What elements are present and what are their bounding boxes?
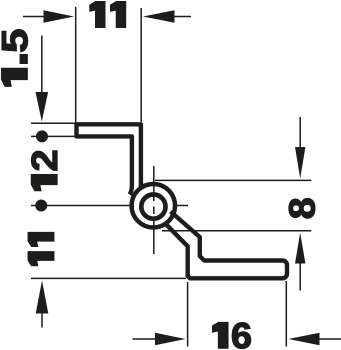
label 8 right (rotated) [289, 199, 315, 218]
arrow tail bottom for dim 8 [299, 262, 301, 291]
arrowhead right (dim 11 top left) [44, 10, 75, 23]
hinge arm and bottom flange [165, 212, 287, 279]
extension line bottom of dim 8 [162, 230, 311, 232]
extension line top of dim 1.5 [31, 122, 76, 124]
terminator dot (dim 12 bottom / dim 11) [35, 200, 47, 212]
label 11 left (rotated) [28, 232, 54, 265]
arrowhead down (dim 1.5) [36, 92, 49, 122]
dim line 16 left segment [133, 338, 157, 340]
label 11 top [90, 2, 126, 28]
label 1.5 left (rotated) [2, 30, 28, 86]
arrowhead right (dim 16 left) [155, 333, 186, 346]
arrow tail for dim 11 bottom-left [41, 312, 43, 328]
dim line 11 bottom-left [31, 277, 186, 279]
arrowhead left (dim 11 top right) [143, 10, 175, 23]
arrow tail for dim 1.5 [41, 36, 43, 95]
arrow tail top for dim 8 [299, 117, 301, 148]
arrowhead up (dim 8 bottom) [295, 233, 305, 264]
dim line 11 top left segment [23, 16, 45, 18]
arrowhead down (dim 8 top) [295, 147, 305, 179]
extension line bottom of dim 1.5 [31, 135, 77, 137]
extension line left of dim 11 top [75, 7, 77, 123]
knuckle outer circle [132, 184, 175, 227]
centerline vertical (pin axis) [153, 166, 155, 254]
terminator dot (dim 1.5 / dim 12 top) [36, 130, 48, 142]
label 16 bottom [213, 323, 251, 349]
arrowhead up (dim 11 bottom-left) [36, 281, 49, 314]
label 12 left (rotated) [31, 151, 57, 191]
extension line left of dim 16 [187, 282, 189, 347]
dim line 16 right segment [319, 338, 341, 340]
dim line 11 top right segment [173, 16, 191, 18]
extension line top of dim 8 [155, 179, 311, 181]
extension line right of dim 16 [285, 281, 287, 347]
extension line right of dim 11 top [140, 8, 142, 122]
hinge leaf (left flap, L-profile) [77, 124, 141, 194]
knuckle inner circle (pin bore) [141, 195, 165, 219]
centerline horizontal (pin axis) [31, 205, 188, 207]
arrowhead left (dim 16 right) [288, 333, 319, 346]
